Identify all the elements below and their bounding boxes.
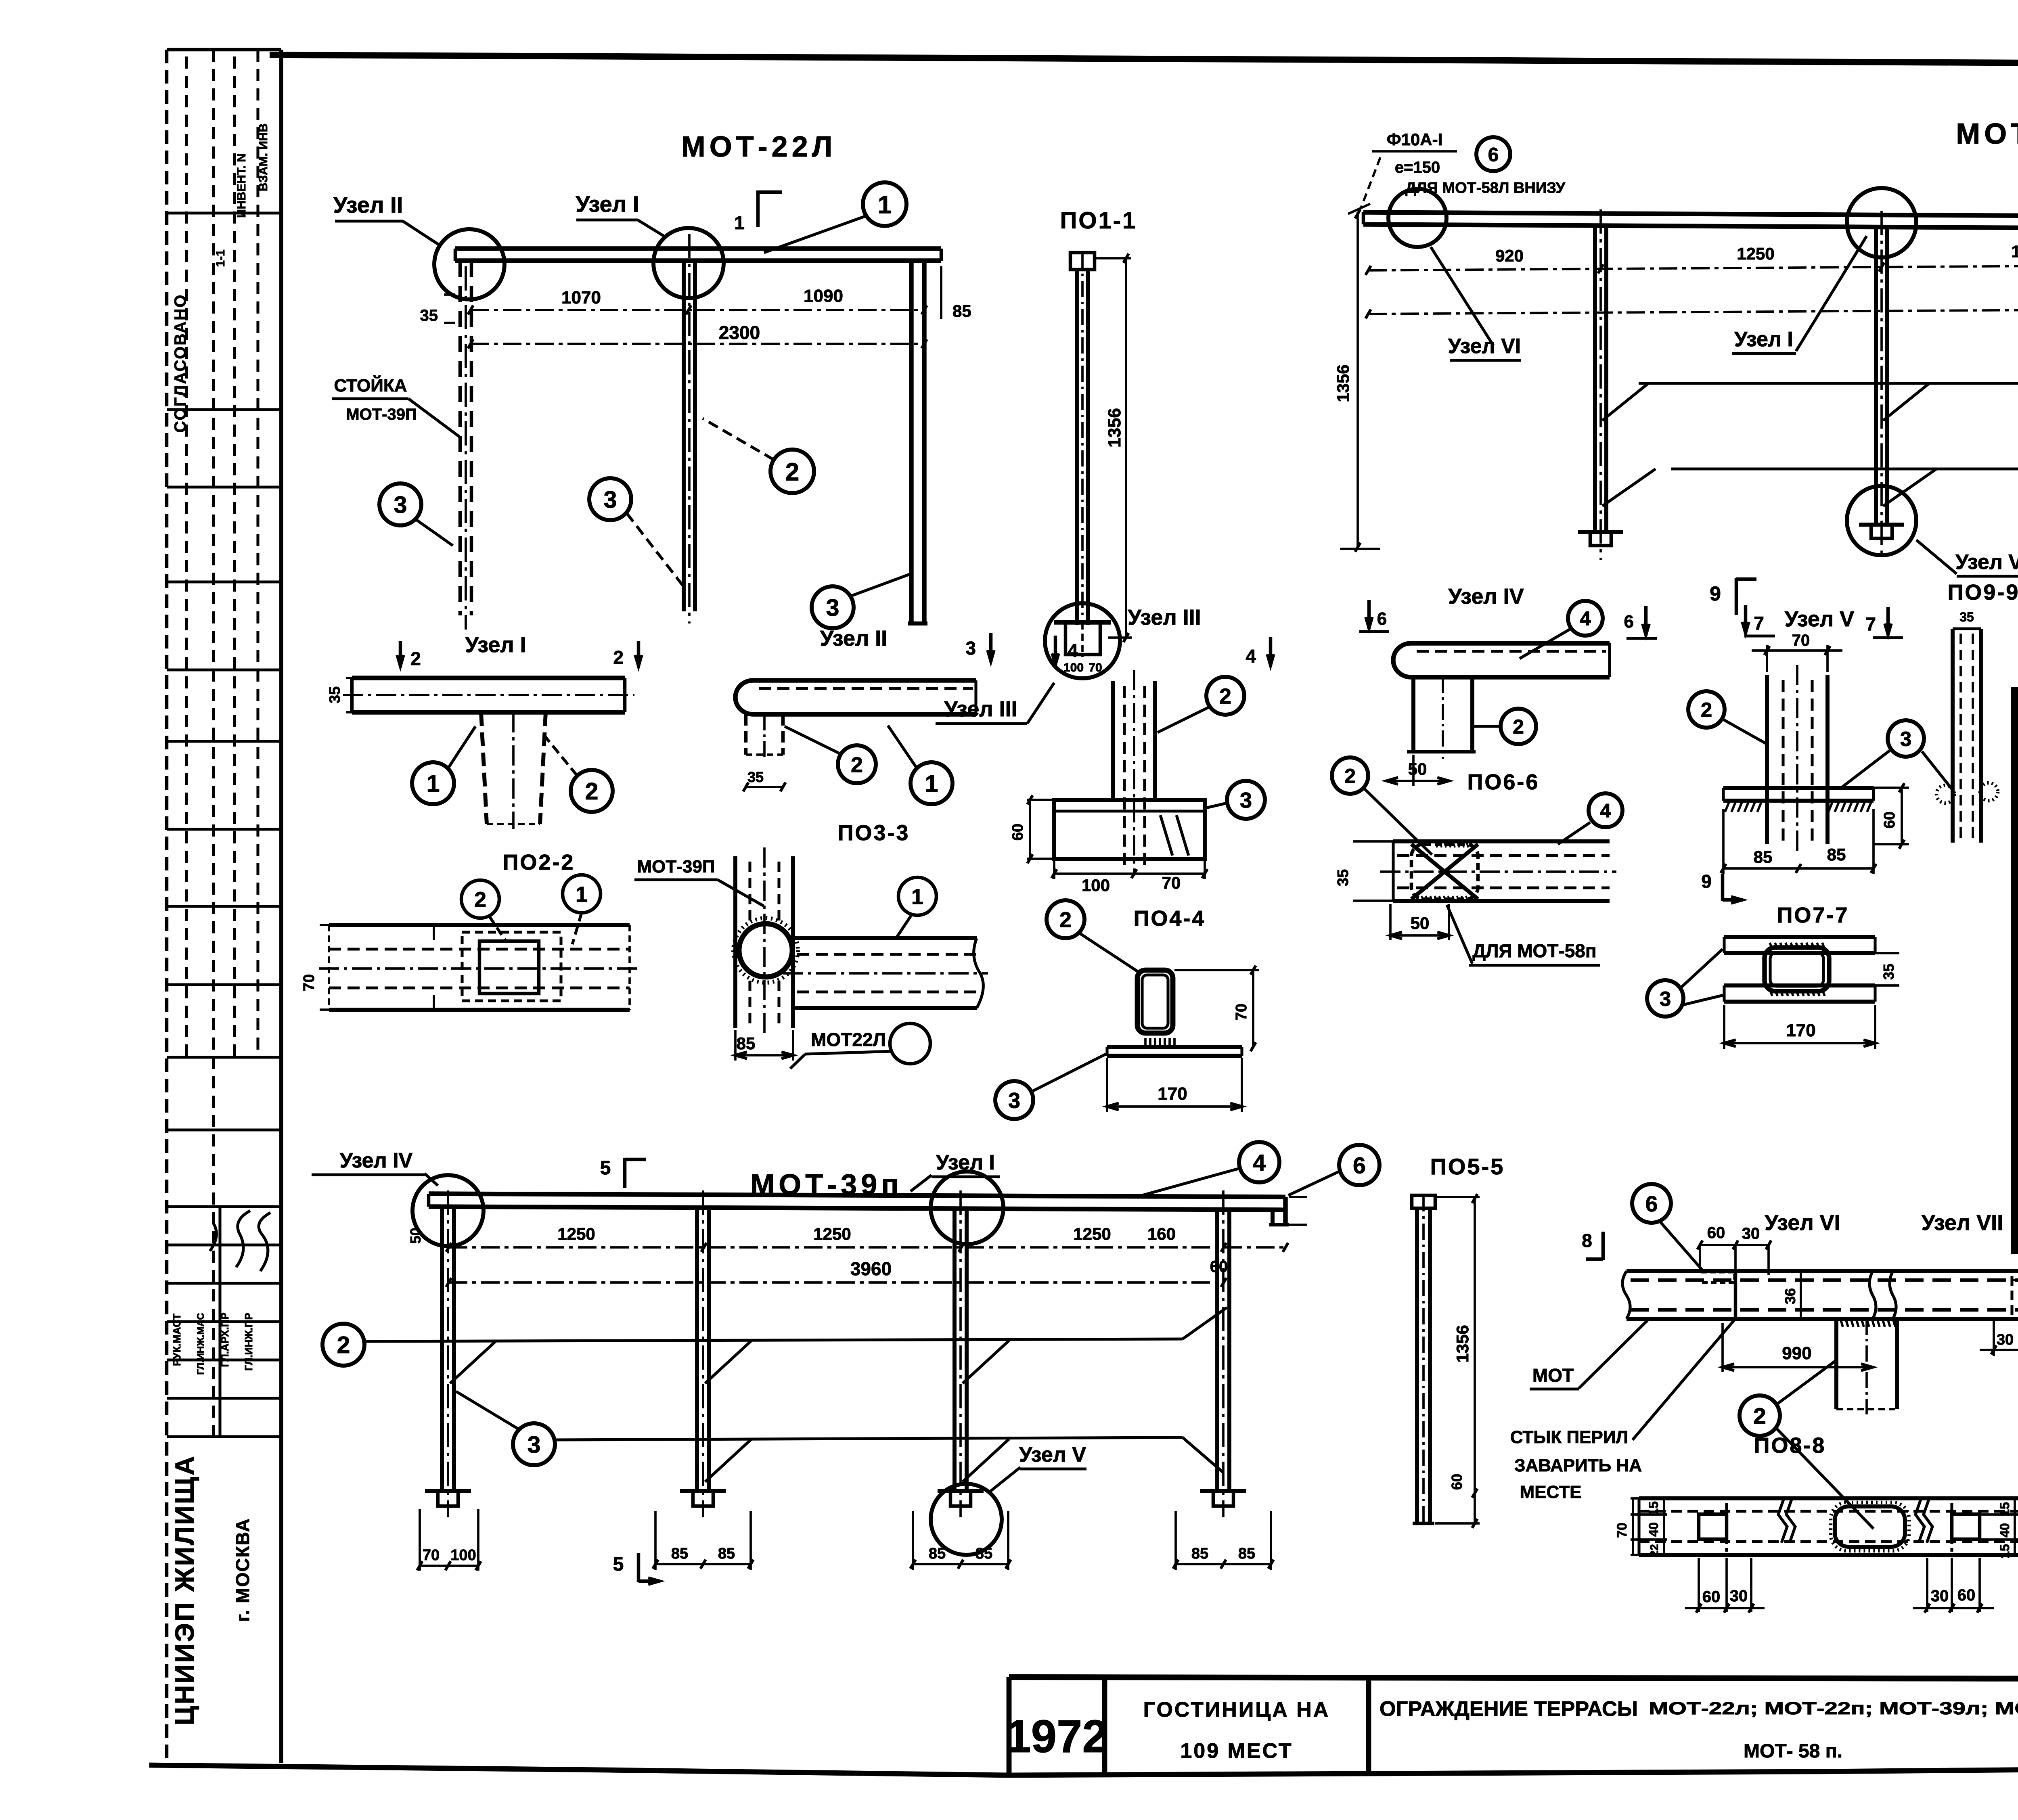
МОТ-39п anchor dims 70/100 [417,1509,481,1571]
svg-text:30: 30 [1742,1225,1760,1243]
svg-text:ДЛЯ МОТ-58Л ВНИЗУ: ДЛЯ МОТ-58Л ВНИЗУ [1405,180,1566,197]
svg-text:2: 2 [613,647,624,668]
ПО7-7 tube section [1765,943,1829,996]
svg-text:3960: 3960 [850,1258,892,1279]
МОТ-39п dimension 3960 [446,1258,1227,1287]
узел II callout 1 [888,726,952,804]
spec table header row [2015,742,2018,821]
title ПО7-7 [1777,903,1849,927]
МОТ-39п section mark 5 top [600,1157,646,1188]
stamp strip text ИНВЕНТ [235,153,248,218]
узел I rail tube [343,678,634,712]
callout circle 6 узел VI [1632,1184,1704,1272]
МОТ-58п posts (poz 2) [1595,209,2018,560]
узел VI circle left end [1388,189,1447,247]
МОТ-39п dimension 50 left [407,1228,424,1244]
svg-text:85: 85 [671,1545,688,1562]
callout circle 6 МОТ-39п [1288,1145,1380,1195]
svg-text:60: 60 [1210,1258,1228,1276]
svg-text:СОГЛАСОВАНО: СОГЛАСОВАНО [172,294,189,433]
узел V circle at post 2 base [1847,486,1916,555]
МОТ-22Л left post (стойка, dashed) [460,261,471,630]
label Узел II [333,192,441,246]
spec table row lines [2015,864,2018,1207]
title block vertical dividers [1009,1677,2018,1775]
label ф10А-I e=150 для МОТ-58Л внизу [1348,130,1566,214]
узел III callout 2 [1158,677,1244,732]
title block Гостиница на 109 мест [1143,1698,1330,1763]
svg-text:2: 2 [410,648,421,669]
title Узел I detail [465,633,526,657]
svg-text:30: 30 [1997,1331,2014,1348]
title ПО3-3 [838,821,910,845]
svg-text:9: 9 [1701,871,1712,892]
svg-text:70: 70 [301,974,318,991]
title Узел II detail [820,626,887,651]
ПО4-4 dimension 70 [1174,966,1259,1052]
svg-text:1: 1 [576,882,588,906]
svg-text:1: 1 [911,885,923,909]
МОТ-22Л top rail (poz 1) [455,249,941,261]
label Узел I (МОТ-39п) [911,1151,1000,1191]
title block year 1972 [1005,1711,1108,1762]
svg-text:1356: 1356 [1453,1325,1472,1362]
svg-text:2: 2 [585,778,599,805]
ПО6-6 callout 2 left [1332,757,1432,855]
ПО2-2 callout 2 [461,880,505,940]
svg-text:35: 35 [1335,869,1352,886]
svg-text:2: 2 [1219,684,1231,708]
label Стойка МОТ-39П [332,375,459,437]
svg-text:1250: 1250 [2011,242,2018,261]
svg-text:2: 2 [1513,715,1524,738]
dimension row 1070 / 1090 [468,266,971,320]
ПО5-5 dimension 1356 [1435,1194,1480,1523]
svg-text:ГЛ.ИНЖ.МАС: ГЛ.ИНЖ.МАС [195,1313,206,1375]
callout line to circle 2 (posts) [1602,369,2018,420]
svg-text:85: 85 [718,1545,735,1562]
узел I section marks 2-2 [397,641,642,669]
ПО8-8 bottom dims 60 30 left [1685,1558,1765,1613]
svg-text:2: 2 [785,458,799,486]
svg-text:170: 170 [1786,1021,1815,1040]
svg-text:70: 70 [1089,661,1102,674]
svg-text:ПО1-1: ПО1-1 [1060,207,1137,234]
ПО3-3 callout 1 [897,877,936,937]
ПО1-1 post top cap [1070,253,1095,270]
title ПО2-2 [503,850,575,874]
svg-text:1250: 1250 [1737,244,1774,263]
узел III dimensions 100 and 70 [1052,860,1208,895]
callout line to circle 3 (anchors) [1602,455,2018,506]
МОТ-58п post anchor plates [1578,525,2018,546]
ПО8-8 right dims 15 40 15 [1980,1498,2018,1559]
МОТ-39п callout line 3 [456,1391,1224,1482]
title ПО4-4 [1134,906,1206,931]
узел VII dims 30 60 [1980,1319,2018,1356]
title ПО1-1 [1060,207,1137,234]
узел V base plate [1723,788,1874,812]
spec table title [2015,706,2018,737]
узел II rail tube with rounded end [735,680,976,714]
svg-text:1070: 1070 [561,288,601,308]
ПО8-8 left end plate [1699,1503,1727,1552]
узел IV circle МОТ-39п [412,1175,484,1246]
svg-text:70: 70 [1162,873,1181,892]
ПО8-8 centre hole with weld hatch [1831,1502,1909,1551]
svg-text:50: 50 [407,1228,424,1244]
svg-text:Узел IV: Узел IV [340,1149,413,1172]
svg-text:1: 1 [734,212,745,233]
svg-text:Узел III: Узел III [1128,605,1201,630]
svg-text:ДЛЯ МОТ-58п: ДЛЯ МОТ-58п [1472,940,1596,961]
узел III base plate [1054,800,1205,859]
узел VI post stub below [1836,1319,1897,1414]
title Узел V detail with marks 7-7 [1742,605,1903,638]
ПО3-3 rail to the right [783,938,988,1008]
узел III post [1113,670,1155,876]
label МОТ-39П [634,857,764,906]
svg-text:МОТ-22Л: МОТ-22Л [681,131,837,163]
label Узел I [576,191,666,237]
ПО8-8 bottom dims 30 60 right [1913,1558,1994,1613]
title Узел VII detail [1922,1211,2003,1235]
svg-text:70: 70 [1614,1523,1630,1538]
stamp strip г.Москва [232,1518,253,1622]
svg-text:ПО5-5: ПО5-5 [1430,1154,1505,1179]
title МОТ-39п [750,1169,903,1201]
svg-text:7: 7 [1865,613,1876,634]
узел IV post below [1407,677,1476,759]
callout circle 3 (middle) [589,478,684,587]
svg-text:Узел II: Узел II [820,626,887,651]
узел II dimension 35 [743,769,786,791]
svg-text:2: 2 [1753,1404,1766,1429]
svg-text:ПО7-7: ПО7-7 [1777,903,1849,927]
svg-text:85: 85 [929,1545,946,1562]
ПО7-7 bottom plate [1724,985,1875,1002]
узел V dimensions 85 85 [1721,809,1876,874]
svg-text:8: 8 [1582,1230,1592,1251]
ПО5-5 dimension 60 [1435,1474,1480,1528]
svg-text:ПО3-3: ПО3-3 [838,821,910,845]
узел V callout 3 [1841,720,1952,789]
svg-text:3: 3 [1900,727,1911,750]
dimension 2300 [468,322,927,348]
svg-text:Узел II: Узел II [333,192,403,218]
svg-text:85: 85 [1754,847,1773,866]
svg-text:160: 160 [1147,1224,1176,1243]
ПО9-9 weld blobs [1936,783,1998,803]
узел V dimension 70 [1752,632,1842,672]
узел II callout 2 [785,726,876,783]
МОТ-39п section mark 5 bottom [613,1553,660,1584]
МОТ-58п dimension row 920/1250/1250/1250/1090 [1366,238,2018,275]
svg-text:22: 22 [1648,1544,1660,1556]
svg-text:50: 50 [1408,759,1427,778]
dimension 35 left of post [420,295,456,324]
svg-text:МОТ22Л: МОТ22Л [811,1029,886,1050]
узел VI callout 2 [1740,1361,1874,1529]
svg-text:100: 100 [1063,661,1084,674]
МОТ-58п top rail (poz 5) [1363,212,2018,231]
svg-text:4: 4 [1246,646,1256,667]
title Узел IV detail [1448,584,1524,609]
svg-text:Узел IV: Узел IV [1448,584,1524,609]
узел II circle mark [434,229,504,299]
svg-text:9: 9 [1710,582,1721,605]
svg-text:ОГРАЖДЕНИЕ ТЕРРАСЫ: ОГРАЖДЕНИЕ ТЕРРАСЫ [1380,1697,1638,1721]
ПО2-2 callout 1 [563,875,601,944]
svg-text:35: 35 [1880,964,1897,980]
svg-text:1250: 1250 [813,1224,851,1243]
title МОТ-22Л [681,131,837,163]
узел V post [1767,665,1828,851]
узел III section mark 4 [1246,637,1274,667]
stamp strip inner verticals [167,50,281,1437]
title block Ограждение террасы [1380,1697,2018,1762]
ПО3-3 dimension 85 [735,1030,793,1061]
svg-text:СТЫК ПЕРИЛ: СТЫК ПЕРИЛ [1510,1427,1629,1447]
callout circle 3 (left post base) [379,483,453,546]
stamp strip signature labels [171,1312,255,1374]
ПО6-6 dimension 50 [1390,904,1449,940]
svg-text:МОТ: МОТ [1532,1365,1574,1386]
svg-text:5: 5 [600,1157,611,1179]
svg-text:МЕСТЕ: МЕСТЕ [1520,1482,1582,1502]
узел I circle МОТ-39п [931,1171,1003,1244]
svg-text:МОТ-58п: МОТ-58п [1956,118,2018,150]
svg-text:ВЗАМ. ИНВ: ВЗАМ. ИНВ [257,123,270,191]
svg-text:3: 3 [826,594,839,621]
svg-text:990: 990 [1782,1343,1811,1363]
svg-text:109 МЕСТ: 109 МЕСТ [1180,1739,1293,1763]
svg-text:Ф10А-I: Ф10А-I [1387,130,1443,149]
svg-text:1250: 1250 [557,1224,595,1243]
svg-text:7: 7 [1754,613,1764,634]
ПО3-3 post [735,847,793,1035]
ПО4-4 tube section upright [1137,970,1173,1033]
svg-text:ГЛ.ИНЖ.ПР: ГЛ.ИНЖ.ПР [243,1313,255,1371]
svg-text:г. МОСКВА: г. МОСКВА [232,1518,253,1622]
svg-text:85: 85 [976,1545,992,1562]
svg-text:МОТ-39П: МОТ-39П [346,406,417,423]
label Узел I (МОТ-58п) [1732,236,1867,354]
svg-text:2: 2 [1344,764,1356,787]
узел V section mark 9 [1701,871,1743,903]
svg-text:40: 40 [1646,1522,1661,1537]
svg-text:60: 60 [1957,1586,1976,1604]
svg-text:МОТ-39П: МОТ-39П [637,857,715,877]
svg-text:1090: 1090 [804,286,843,306]
svg-text:5: 5 [613,1554,624,1575]
ПО4-4 dimension 170 [1107,1058,1242,1112]
МОТ-39п dimension row 1250x3 + 160 [446,1224,1288,1252]
svg-text:МАРКИ: МАРКИ [2016,786,2018,798]
ПО4-4 base plate [1107,1038,1242,1056]
sheet frame bottom border [149,1764,2018,1775]
sheet frame left border [279,50,283,1763]
svg-text:МОТ- 58 п.: МОТ- 58 п. [1744,1741,1842,1762]
title ПО5-5 [1430,1154,1505,1179]
svg-text:3: 3 [604,486,617,513]
svg-text:15: 15 [1997,1544,2012,1559]
узел VI dims 60 30 [1698,1224,1771,1275]
label Узел IV (МОТ-39п) [312,1149,438,1186]
svg-text:6: 6 [1377,609,1387,629]
label для МОТ-58п [1447,905,1600,965]
svg-text:920: 920 [1495,246,1524,265]
svg-text:85: 85 [737,1034,756,1053]
узел I callout 2 [541,731,613,812]
title Узел VI detail [1765,1211,1840,1235]
svg-text:100: 100 [1082,876,1110,895]
svg-text:85: 85 [952,301,971,320]
svg-text:Узел I: Узел I [465,633,526,657]
узел VI section mark 8 left [1582,1230,1603,1260]
узел VI-VII rail tube long [1622,1271,2018,1319]
ПО2-2 splice plates [434,926,561,1010]
узел III circle at post base [1045,603,1120,678]
svg-text:4: 4 [1068,640,1078,661]
sheet frame top border [270,55,2018,66]
label Узел V [1916,540,2018,576]
label Узел V (МОТ-39п) [988,1443,1086,1493]
svg-text:ПО6-6: ПО6-6 [1467,770,1540,794]
svg-text:6: 6 [1645,1191,1658,1216]
title ПО8-8 [1754,1433,1826,1458]
svg-text:2: 2 [1059,908,1072,932]
svg-text:Узел VI: Узел VI [1765,1211,1840,1235]
svg-text:Узел V: Узел V [1019,1443,1086,1466]
svg-text:60: 60 [1881,812,1898,828]
svg-text:Узел VII: Узел VII [1922,1211,2003,1235]
svg-text:2300: 2300 [719,322,760,343]
ПО4-4 callout 2 [1047,900,1138,972]
stamp strip ЦНИИЭП ЖИЛИЩА [170,1454,199,1725]
stamp strip left edge [165,50,169,1763]
svg-text:ПО4-4: ПО4-4 [1134,906,1206,931]
svg-text:ПО2-2: ПО2-2 [503,850,575,874]
svg-text:3: 3 [1660,987,1671,1010]
узел IV callout 4 [1520,601,1603,659]
ПО6-6 rail tube [1380,841,1616,901]
svg-text:1-1: 1-1 [214,249,227,267]
title ПО6-6 [1467,770,1540,794]
узел IV rail tube rounded end [1393,643,1610,677]
svg-text:35: 35 [747,769,764,785]
узел III callout 3 [1206,781,1265,819]
ПО3-3 weld collar [733,918,798,983]
title block top line [1009,1677,2018,1680]
svg-text:40: 40 [1997,1523,2012,1538]
svg-text:85: 85 [1238,1545,1255,1562]
svg-text:170: 170 [1158,1084,1187,1104]
ПО7-7 dimension 35 [1875,953,1899,985]
label МОТ [1530,1320,1647,1389]
callout circle 3 (right leg base) [812,573,913,628]
svg-text:1356: 1356 [1333,364,1352,402]
ПО7-7 callout 3 [1647,949,1723,1017]
svg-text:ИНВЕНТ. N: ИНВЕНТ. N [235,153,248,218]
ПО7-7 top plate [1724,937,1875,953]
узел I dimension 35 [327,678,355,712]
svg-text:2: 2 [851,753,863,777]
svg-text:15: 15 [1646,1501,1661,1516]
title МОТ-58п [1956,118,2018,150]
svg-text:3: 3 [394,492,407,518]
узел III dimension 60 [1009,795,1054,864]
ПО8-8 left dims 15 40 70 22 [1614,1498,1701,1557]
МОТ-39п posts (poz 2) [442,1190,1229,1517]
ПО7-7 dimension 170 [1724,1005,1875,1049]
svg-text:e=150: e=150 [1395,159,1440,176]
stamp strip signatures [210,1211,270,1271]
узел I callout 1 [412,726,475,804]
title Узел III detail [1128,605,1201,630]
callout circle 6 top left [1476,137,1510,171]
МОТ-22Л middle post (poz 2) [684,234,695,623]
узел IV callout 2 [1474,709,1536,744]
svg-text:30: 30 [1730,1587,1748,1605]
узел I post below [481,712,546,829]
svg-text:50: 50 [1411,914,1430,933]
ПО1-1 anchor plate in узел III [1054,622,1111,674]
МОТ-39п anchor dims 85/85 posts 2-4 [653,1511,1274,1570]
stamp strip text ВЗАМЕН [257,123,270,191]
ПО8-8 bar plan [1639,1498,2018,1555]
svg-text:Узел I: Узел I [576,191,639,217]
ПО2-2 dimension 70 [301,925,329,1010]
узел I circle mark [653,228,724,298]
ПО5-5 post [1412,1195,1435,1523]
svg-text:60: 60 [1009,824,1026,841]
svg-text:60: 60 [1707,1224,1725,1242]
svg-text:Узел VI: Узел VI [1448,335,1521,358]
spec table outer border [2015,691,2018,1250]
узел VII post stub dashed [2012,1276,2018,1319]
svg-text:РУК.МАСТ: РУК.МАСТ [171,1314,183,1366]
узел VI dimension 990 [1723,1323,1873,1372]
svg-text:ЦНИИЭП ЖИЛИЩА: ЦНИИЭП ЖИЛИЩА [170,1454,199,1725]
svg-text:2: 2 [1701,698,1712,721]
label МОТ22Л with circle [790,1023,930,1069]
svg-text:ПО8-8: ПО8-8 [1754,1433,1826,1458]
svg-text:4: 4 [1600,800,1611,822]
callout circle 4 МОТ-39п [1142,1142,1279,1195]
узел IV section marks 6 [1359,600,1657,638]
svg-text:3: 3 [1240,788,1252,812]
svg-text:3: 3 [528,1431,541,1458]
ПО1-1 post [1077,253,1088,625]
svg-text:3: 3 [1008,1088,1020,1113]
svg-text:85: 85 [1827,845,1846,864]
svg-text:1250: 1250 [1073,1224,1111,1243]
svg-text:35: 35 [327,686,343,703]
ПО6-6 callout 4 [1558,793,1622,844]
svg-text:6: 6 [1624,612,1634,632]
узел IV dimension 50 [1386,755,1449,786]
МОТ-39п top rail (poz 4) [429,1194,1289,1225]
svg-text:6: 6 [1353,1153,1366,1179]
title ПО9-9 [1948,580,2018,605]
МОТ-22Л right leg of rail [908,261,927,623]
stamp strip text 1-1 [214,249,227,267]
ПО8-8 right end plate [1952,1503,1980,1552]
ПО2-2 rail tube plan view [319,925,640,1010]
svg-text:СТОЙКА: СТОЙКА [334,375,407,395]
svg-text:1: 1 [925,770,938,797]
